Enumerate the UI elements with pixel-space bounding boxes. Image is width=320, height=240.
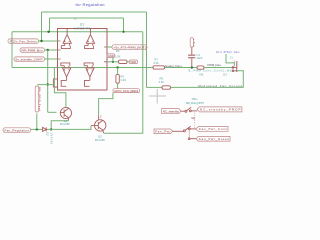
op-amp U1D triangle [86, 66, 94, 81]
svg-text:LM324N: LM324N [74, 27, 90, 31]
svg-text:3.3K: 3.3K [159, 80, 165, 84]
svg-text:SW_Push_DPST: SW_Push_DPST [186, 101, 205, 105]
wire vertical x=49.5 [49, 18, 51, 32]
wire vertical x=41.5 to label row1 [41, 12, 43, 41]
svg-text:J13: J13 [223, 73, 228, 77]
switch SW1 linkage dashed [194, 113, 196, 129]
resistor R6 [119, 60, 128, 63]
global label left row3 [14, 57, 45, 61]
svg-text:Q3: Q3 [98, 135, 102, 139]
svg-text:4in PSU fan: 4in PSU fan [216, 50, 240, 54]
resistor R8 [162, 86, 171, 89]
op-amp U1B triangle [86, 29, 94, 46]
global label Fan_Pwr_Conn [196, 127, 228, 132]
junction row1 x=41.5 [40, 40, 42, 42]
wire Fan_Regulation row [31, 128, 42, 130]
transistor Q2 [60, 107, 71, 120]
wire R5 top [117, 68, 119, 75]
wire bus y=31.8 across IC [12, 31, 143, 33]
junction after diode [50, 128, 52, 130]
global label Fan_Pwr_Green [196, 136, 230, 141]
wire vertical x=12 [11, 32, 13, 68]
diode D2 [42, 127, 48, 131]
switch SW1 throw B2 pin [190, 138, 196, 140]
switch SW1 pole B pin [173, 130, 184, 132]
op-amp U1C triangle [63, 66, 71, 81]
switch SW1 throw B2 link [188, 130, 190, 138]
wire stub to vertical label [37, 84, 53, 86]
op-amp input polarity marks [64, 41, 94, 71]
connector J1 pin1 [232, 66, 234, 68]
svg-text:+5v: +5v [192, 39, 196, 48]
op-amp U1B feedback [85, 46, 94, 49]
op-amp U1D output loop [85, 80, 90, 86]
wire vertical x=123.5 [123, 18, 125, 32]
op-amp U1A triangle [63, 29, 71, 46]
switch SW1 throw A pin [191, 110, 197, 112]
switch SW1 throw A contact [190, 110, 192, 112]
svg-text:KM: KM [199, 73, 203, 77]
svg-text:Fan_Pwr: Fan_Pwr [155, 130, 170, 134]
svg-text:BUL380: BUL380 [95, 138, 105, 142]
wire dangling near J1 [226, 54, 234, 66]
svg-text:5v_standby_CHKP: 5v_standby_CHKP [16, 58, 43, 62]
wire vertical label drop [36, 114, 38, 130]
global label vertical above C1 [190, 38, 193, 47]
switch SW1 throw B1 contact [188, 128, 190, 130]
svg-text:Fan_Regulation: Fan_Regulation [5, 129, 30, 133]
global label GND right of R6 [129, 60, 137, 64]
junction R5 top [116, 66, 118, 68]
svg-text:Analog_Fan+: Analog_Fan+ [165, 64, 183, 68]
wire to J1 pin1 [204, 67, 232, 69]
op-amp U1C outer feedback [53, 79, 57, 87]
switch SW1 pole B lever [185, 126, 190, 130]
switch SW1 pole A contact [185, 110, 187, 112]
wire Q2 emitter net [51, 121, 68, 130]
svg-text:Fan_Pwr_Green: Fan_Pwr_Green [199, 137, 229, 141]
global label Fan_Pwr [154, 129, 173, 134]
wire R6 row stub [107, 61, 119, 63]
svg-text:1N4148: 1N4148 [50, 132, 53, 144]
svg-text:Fan_Pwr_Conn: Fan_Pwr_Conn [199, 127, 227, 131]
op-amp U1C feedback [61, 63, 70, 66]
connector J1 pin2 [232, 70, 234, 72]
svg-text:Modulated_Fan_Ground: Modulated_Fan_Ground [198, 84, 242, 88]
global label left row1 [8, 39, 39, 43]
op-amp U1A feedback [61, 46, 70, 49]
wire top bus y=12 [42, 11, 147, 13]
cursor crosshair [149, 89, 166, 104]
svg-text:NC_standby: NC_standby [163, 110, 180, 114]
junction C1 [191, 66, 193, 68]
svg-text:PWM_Fan+: PWM_Fan+ [207, 63, 221, 67]
junction R6 stub [112, 61, 114, 63]
wire Q2 collector path [54, 68, 66, 108]
svg-text:3.3K: 3.3K [153, 61, 159, 65]
op-amp U1 body [58, 29, 108, 91]
switch SW1 throw B2 contact [188, 138, 190, 140]
svg-text:RPi_GPIO_Fan4: RPi_GPIO_Fan4 [37, 87, 41, 112]
wire R6 right [127, 61, 129, 63]
svg-text:+5v_ATX+PWM_[NOT]: +5v_ATX+PWM_[NOT] [114, 46, 146, 50]
svg-text:R6: R6 [116, 49, 120, 53]
svg-text:10nF: 10nF [196, 56, 203, 60]
resistor R9 small [197, 66, 204, 69]
wire label row2 [45, 49, 58, 51]
wire R8 row left [147, 86, 163, 88]
global label GND at IC edge [107, 54, 115, 58]
transistor Q3 [95, 120, 106, 133]
wire after R7 [165, 67, 198, 69]
wire Fan_Regulation to Q3 base [48, 126, 91, 130]
global label vertical left [35, 86, 39, 112]
svg-text:R8: R8 [160, 76, 164, 80]
svg-text:3.3K: 3.3K [120, 78, 126, 82]
wire +5v label stub [107, 46, 112, 48]
junction row2 x=47.7 [47, 49, 49, 51]
capacitor C1 lower pin [191, 58, 193, 67]
wire Q2 base tap [48, 111, 57, 113]
svg-text:for Regulation: for Regulation [76, 2, 105, 7]
U1 pin stubs [58, 41, 108, 62]
svg-text:P12v_Fan_Detect: P12v_Fan_Detect [10, 40, 37, 44]
wire base net vertical x=47.7 [47, 50, 49, 112]
wire vertical x=146.5 down to R8 row [146, 12, 148, 87]
wire vertical x=142.5 down to Q3 emitter row [104, 32, 143, 133]
wire label row3 [45, 58, 58, 60]
junction x=123.5 y=31.8 [122, 31, 124, 33]
global label +5v row [112, 45, 147, 50]
svg-text:J1: J1 [230, 55, 233, 59]
global label NC_standby [162, 109, 181, 114]
resistor R5 [116, 74, 119, 83]
wire bus y=18 [50, 17, 124, 19]
junction x=48.6 y=31.8 [47, 31, 49, 33]
switch SW1 throw B1 pin [190, 128, 196, 130]
capacitor C1 plates [188, 55, 195, 56]
resistor R7 [153, 66, 165, 69]
svg-text:GPIO_FAN_[RED]: GPIO_FAN_[RED] [114, 89, 138, 93]
switch SW1 pole A pin [181, 110, 185, 112]
switch SW1 pole A lever [187, 107, 192, 110]
wire label row1 [39, 40, 58, 42]
junction x=36.9 [36, 128, 38, 130]
op-amp U1C output loop [61, 80, 66, 86]
svg-text:GND: GND [108, 54, 114, 58]
pin Q3 collector stub [98, 115, 100, 119]
wire R8 row right [171, 71, 244, 88]
svg-text:B_PWM Conn_01x02_Male: B_PWM Conn_01x02_Male [189, 69, 236, 73]
connector J1 body [236, 61, 238, 72]
svg-text:RPi_PWM_Mon: RPi_PWM_Mon [22, 49, 43, 53]
global label left row2 [20, 48, 45, 52]
capacitor C1 upper pin [191, 47, 193, 55]
svg-text:GND: GND [130, 60, 136, 64]
svg-text:NC_standby_PROP: NC_standby_PROP [200, 108, 241, 112]
wire Q3 base step [91, 125, 95, 127]
svg-text:BUL380: BUL380 [60, 122, 70, 126]
wire R5 bottom [117, 83, 119, 89]
global label NC_standby_PROP [197, 107, 242, 112]
wire long y=67.5 [12, 67, 154, 69]
wire R6 tiny vertical [112, 58, 114, 62]
global label Fan_Regulation [3, 128, 31, 133]
wire GPIO label to Q3 collector [99, 93, 113, 116]
junction base net y=84.5 [47, 83, 49, 85]
switch SW1 pole B contact [183, 130, 185, 132]
global label GPIO_FAN [113, 89, 140, 93]
svg-text:3.3K: 3.3K [115, 54, 121, 58]
op-amp U1D feedback [84, 63, 93, 66]
